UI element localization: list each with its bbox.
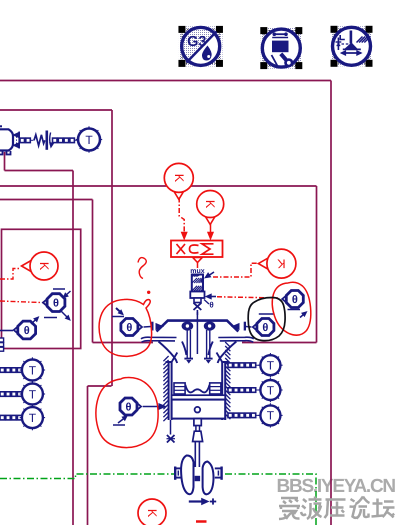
- svg-text:K: K: [172, 174, 186, 183]
- svg-text:K: K: [203, 200, 217, 209]
- svg-text:θ: θ: [209, 301, 213, 310]
- svg-text:θ: θ: [126, 402, 132, 414]
- svg-text:T: T: [85, 133, 93, 147]
- svg-text:G3: G3: [187, 34, 206, 50]
- svg-text:θ: θ: [126, 322, 132, 334]
- svg-text:θ: θ: [262, 322, 268, 334]
- svg-text:K: K: [145, 509, 159, 518]
- svg-text:T: T: [29, 411, 37, 425]
- svg-text:θ: θ: [292, 294, 298, 306]
- svg-text:T: T: [29, 363, 37, 377]
- svg-text:K: K: [37, 262, 51, 271]
- svg-text:θ: θ: [24, 325, 30, 337]
- svg-text:T: T: [267, 409, 275, 423]
- svg-text:BBS.IYEYA.CN: BBS.IYEYA.CN: [277, 476, 396, 497]
- svg-text:T: T: [267, 359, 275, 373]
- svg-text:K: K: [277, 257, 286, 271]
- svg-text:T: T: [29, 387, 37, 401]
- svg-text:T: T: [267, 383, 275, 397]
- svg-text:θ: θ: [53, 298, 59, 310]
